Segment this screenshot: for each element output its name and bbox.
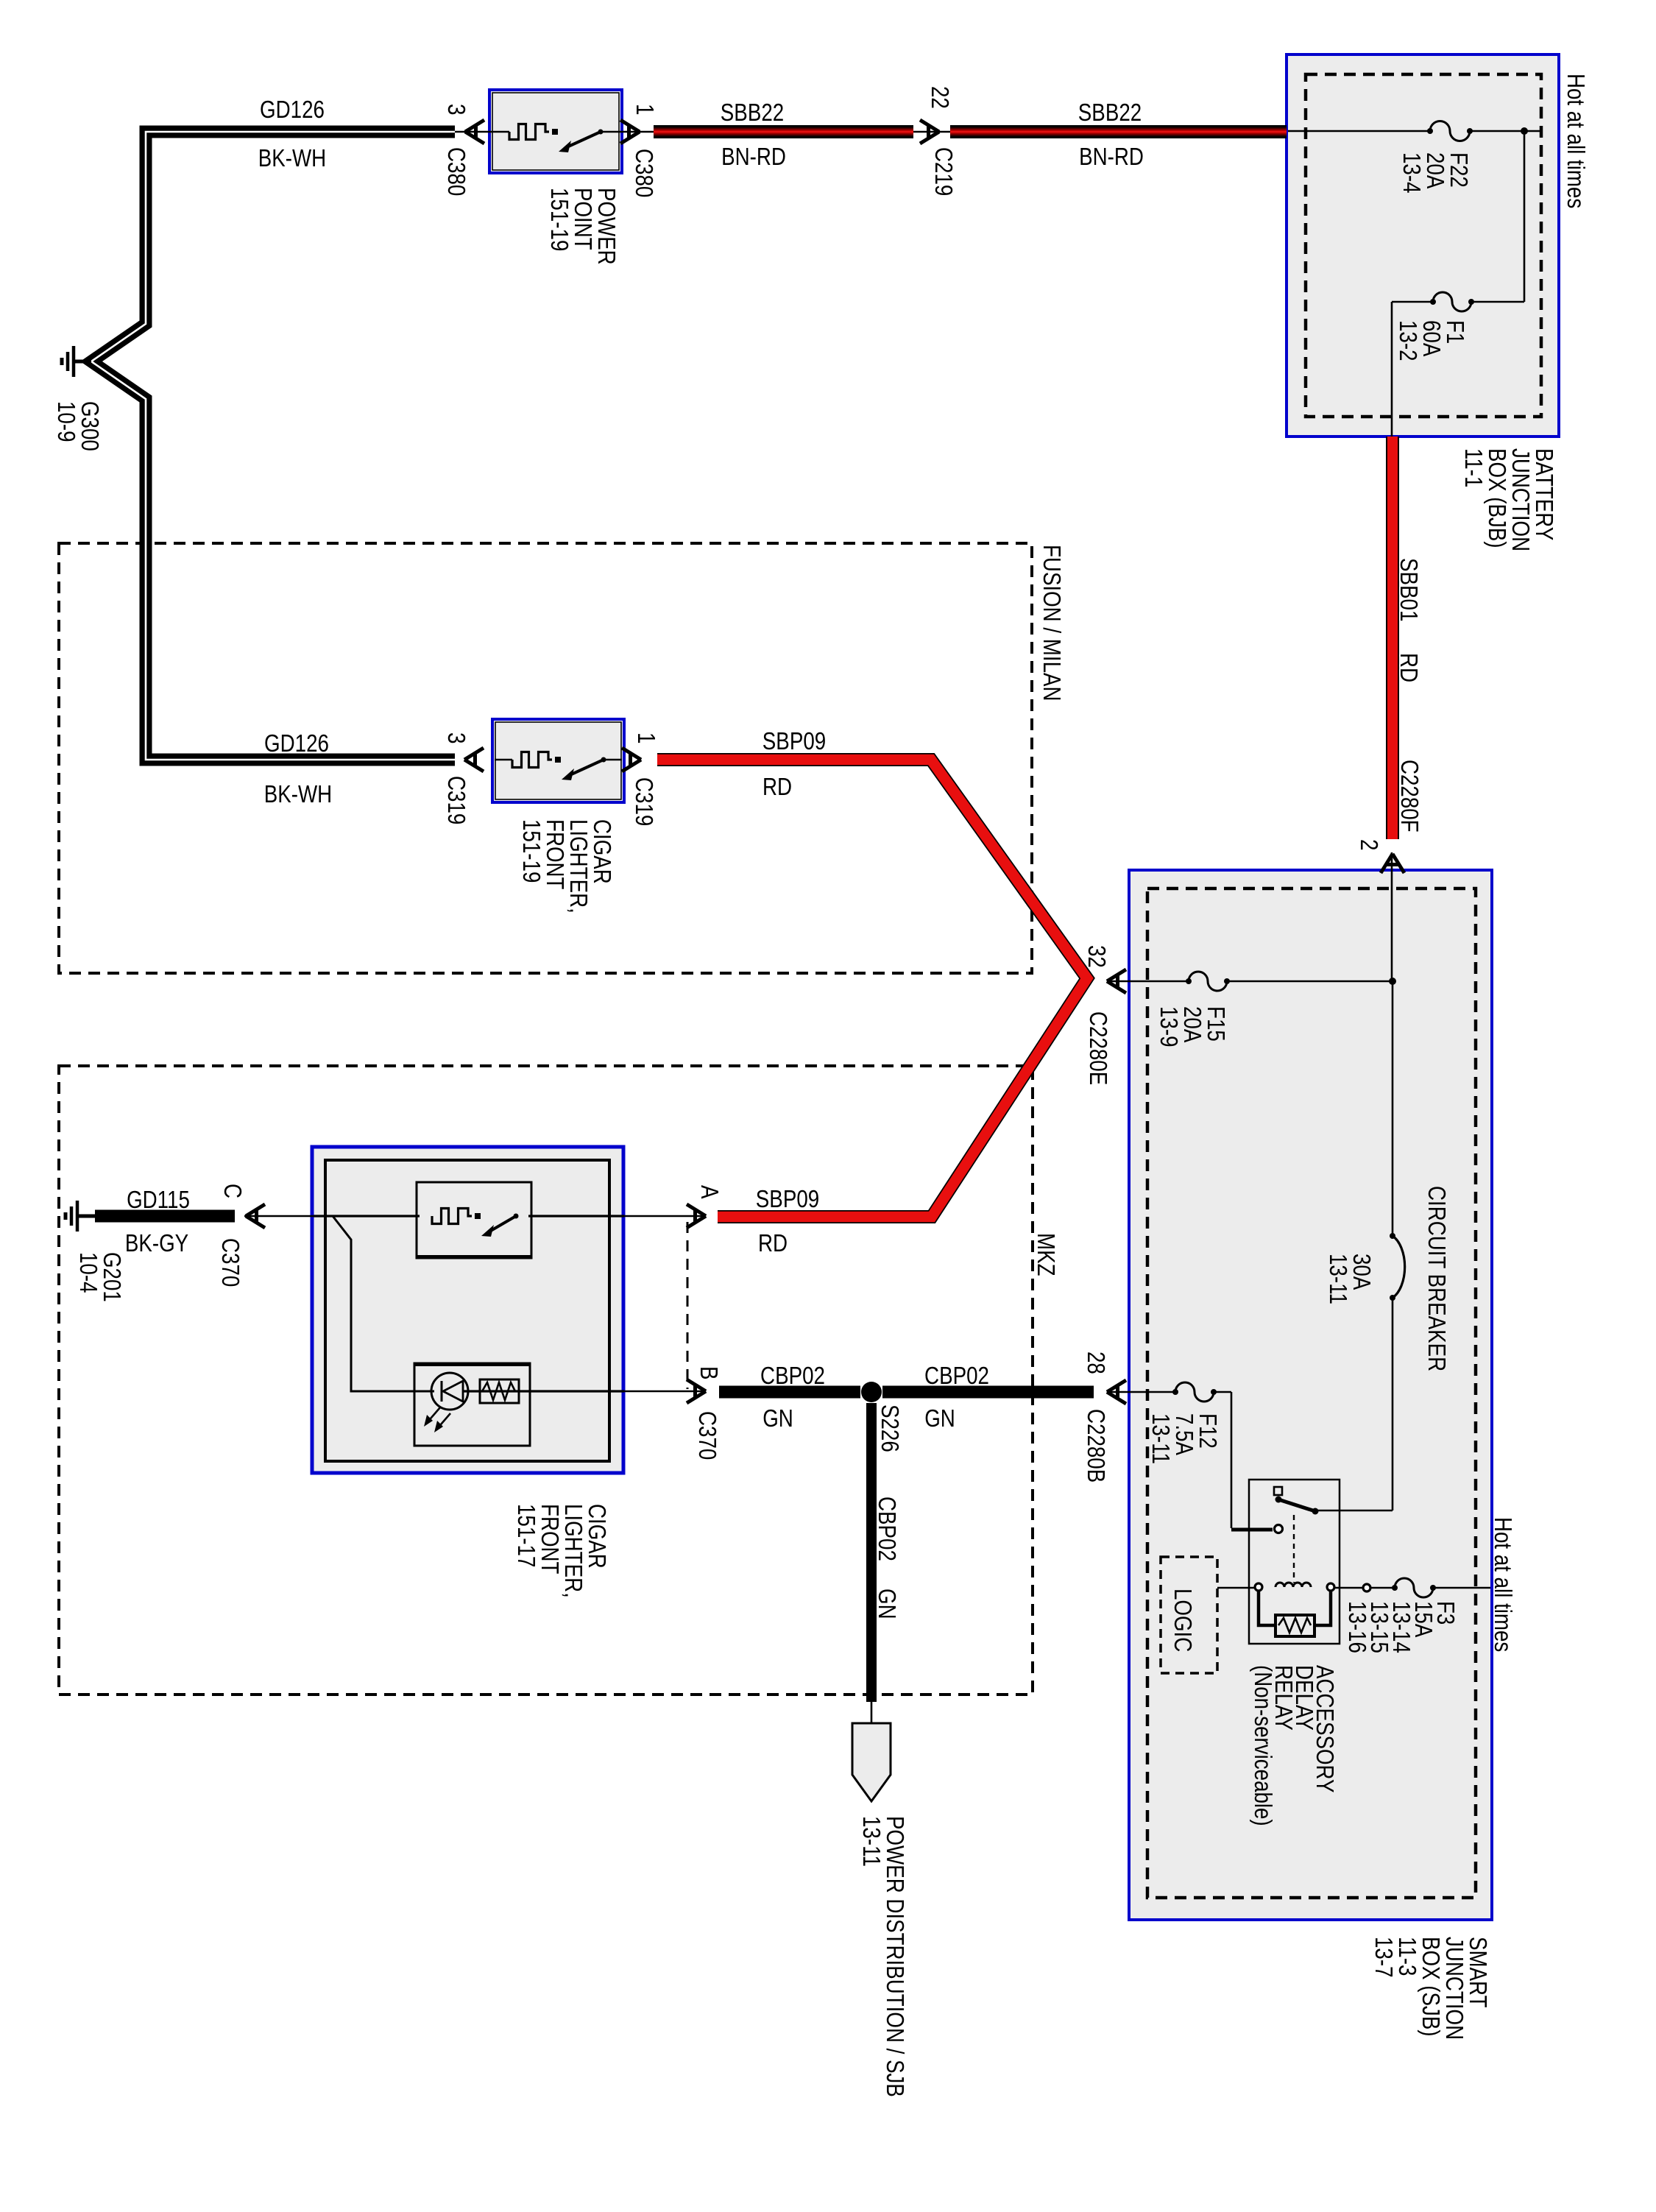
wire: C2280F lead into SJB	[1391, 852, 1393, 982]
relay thermal resistor	[1259, 1590, 1275, 1625]
wire: coil to F3	[1331, 1587, 1396, 1589]
smart junction box (SJB) outline	[1129, 870, 1492, 1920]
fuse F1 60A	[1433, 292, 1471, 311]
relay coil	[1255, 1583, 1262, 1591]
svg-text:MKZ: MKZ	[1033, 1233, 1060, 1276]
wire SBB22 BN-RD segment 2	[950, 125, 1287, 138]
fuse F3 15A	[1395, 1578, 1433, 1597]
LOGIC box dashed	[1161, 1557, 1217, 1673]
wire: C380 pin1 lead to SBB22	[620, 131, 655, 133]
connector C380 pin 3 arrow	[465, 120, 484, 144]
wire CBP02 GN segment 2 (S226 to C2280B)	[882, 1386, 1094, 1399]
svg-text:CBP02: CBP02	[760, 1362, 825, 1389]
wire: F12 corner down to relay contact	[1231, 1392, 1233, 1528]
cigar lighter front 151-19 box U2	[492, 719, 624, 802]
wire: relay contact feed (thick)	[1231, 1528, 1273, 1532]
wire: junction down to circuit breaker	[1392, 981, 1394, 1236]
svg-text:2: 2	[1356, 839, 1383, 851]
svg-text:C219: C219	[930, 147, 958, 196]
ground G300	[62, 346, 91, 377]
svg-text:C2280F: C2280F	[1396, 760, 1423, 833]
accessory delay relay box	[1249, 1480, 1340, 1644]
wire: cigar lighter U3 input	[314, 1215, 420, 1217]
wire: F3 to SJB border (Hot at all times)	[1432, 1587, 1490, 1589]
svg-text:32: 32	[1083, 945, 1111, 968]
wire SBB22 BN-RD segment 1	[654, 125, 913, 138]
circuit breaker 30A symbol	[1393, 1236, 1405, 1298]
SJB inner dashed border	[1147, 888, 1476, 1898]
splice S226	[861, 1382, 882, 1402]
wire: F1 row right segment	[1470, 301, 1524, 303]
node: coil-F3 node	[1363, 1584, 1370, 1591]
svg-text:Hot at all times: Hot at all times	[1490, 1517, 1517, 1652]
FUSION / MILAN dashed box	[59, 543, 1032, 973]
svg-text:C: C	[219, 1184, 247, 1198]
wire: C380 pin3 lead	[455, 131, 492, 133]
svg-text:C380: C380	[443, 147, 470, 196]
off-page pointer: power distribution	[852, 1723, 891, 1801]
svg-text:RD: RD	[762, 773, 792, 800]
wire: U3 switch output to pin A	[528, 1215, 624, 1217]
connector C370 pin A arrow	[687, 1204, 706, 1228]
svg-text:CBP02: CBP02	[874, 1497, 901, 1561]
accessory delay relay switch	[1274, 1487, 1282, 1495]
wire: F15 to junction	[1227, 980, 1393, 983]
connector C380 pin 1 arrow	[620, 120, 640, 144]
svg-text:28: 28	[1083, 1351, 1110, 1374]
svg-text:BK-WH: BK-WH	[264, 780, 332, 808]
fuse F15 20A	[1189, 972, 1227, 991]
svg-text:SBP09: SBP09	[756, 1185, 819, 1212]
connector C2280B pin 28 arrow	[1107, 1380, 1126, 1404]
svg-text:CBP02: CBP02	[924, 1362, 989, 1389]
wire: BJB feed to fuse F22	[1288, 130, 1432, 132]
relay NO contact terminal	[1275, 1525, 1283, 1533]
svg-text:1: 1	[633, 732, 660, 744]
svg-text:GD115: GD115	[127, 1186, 190, 1213]
battery junction box (BJB) outline	[1287, 54, 1559, 437]
svg-text:C370: C370	[217, 1238, 244, 1287]
svg-text:GN: GN	[924, 1404, 955, 1432]
U3 LED symbol	[431, 1373, 468, 1410]
svg-text:GN: GN	[874, 1589, 901, 1619]
svg-text:B: B	[696, 1366, 723, 1380]
wire: C2280B lead to fuse F12	[1108, 1391, 1177, 1393]
wire: C2280E lead to fuse F15	[1108, 980, 1190, 983]
connector C219 arrow	[920, 120, 939, 144]
U3 LED sub-box	[414, 1363, 530, 1446]
wire: F1 row left segment	[1392, 301, 1434, 303]
wire CBP02 GN segment 1 (C370 B to S226)	[719, 1386, 860, 1399]
svg-text:22: 22	[927, 86, 954, 109]
node: BJB junction	[1521, 127, 1528, 135]
svg-text:F1520A13-9: F1520A13-9	[1156, 1006, 1230, 1047]
MKZ dashed box	[59, 1066, 1033, 1695]
wire CBP02 GN vertical to power distribution	[866, 1403, 877, 1702]
svg-text:SBB22: SBB22	[1078, 99, 1142, 126]
U3 ballast resistor	[480, 1379, 519, 1403]
svg-text:BK-GY: BK-GY	[125, 1229, 188, 1257]
cigar lighter U3 element sub-box	[417, 1182, 531, 1258]
power point U1 resistor+switch symbol	[492, 131, 509, 133]
svg-text:S226: S226	[877, 1404, 904, 1452]
svg-text:BK-WH: BK-WH	[258, 144, 326, 172]
node: SJB junction at F15 row	[1389, 978, 1396, 985]
connector C319 pin 1 arrow	[622, 748, 641, 771]
svg-text:CIRCUIT BREAKER: CIRCUIT BREAKER	[1423, 1186, 1451, 1371]
svg-text:C319: C319	[631, 777, 658, 826]
svg-text:BN-RD: BN-RD	[721, 143, 786, 170]
svg-text:SBP09: SBP09	[762, 727, 826, 755]
wire: LOGIC to relay coil	[1217, 1587, 1259, 1589]
svg-text:GD126: GD126	[264, 729, 329, 757]
wire: relay common lead	[1316, 1510, 1393, 1512]
wire GD126 BK-WH (power point to G300)	[91, 132, 455, 760]
wire: F22 to junction	[1468, 130, 1541, 132]
svg-text:SBB22: SBB22	[721, 99, 784, 126]
connector C319 pin 3 arrow	[464, 748, 484, 771]
svg-text:C380: C380	[631, 149, 658, 197]
svg-text:LOGIC: LOGIC	[1170, 1589, 1197, 1652]
power point box U1	[489, 90, 622, 173]
svg-text:FUSION / MILAN: FUSION / MILAN	[1038, 545, 1066, 702]
wire: junction down to F1 row	[1524, 131, 1526, 302]
svg-text:C319: C319	[443, 776, 470, 824]
svg-text:GN: GN	[762, 1404, 793, 1432]
connector C370 pin B arrow	[687, 1379, 706, 1403]
BJB inner dashed border	[1306, 74, 1541, 417]
connector C370 pin C arrow	[246, 1204, 265, 1228]
svg-text:SBB01: SBB01	[1395, 558, 1423, 621]
svg-text:RD: RD	[1395, 653, 1423, 682]
svg-text:1: 1	[631, 104, 659, 116]
wire: U3 LED row through resistor to pin B	[464, 1390, 624, 1392]
svg-text:BN-RD: BN-RD	[1079, 143, 1144, 170]
wire: pentagon lead	[871, 1700, 873, 1723]
connector C2280E pin 32 arrow	[1107, 969, 1126, 993]
relay actuator dashed link	[1293, 1515, 1295, 1583]
svg-text:C2280E: C2280E	[1085, 1011, 1112, 1085]
wire SBP09 RD	[657, 760, 1087, 1217]
svg-text:C2280B: C2280B	[1083, 1409, 1110, 1483]
wire SBB01 RD	[1386, 437, 1399, 839]
ground G201	[66, 1201, 95, 1232]
wire: F12 to corner	[1212, 1391, 1231, 1393]
svg-text:RD: RD	[758, 1229, 788, 1257]
U3 resistor+switch symbol	[432, 1209, 472, 1224]
svg-text:3: 3	[443, 104, 470, 116]
C370 connector bracket dashed line	[687, 1222, 689, 1389]
wire: circuit breaker to relay common	[1392, 1298, 1394, 1510]
wire GD115 BK-GY	[95, 1210, 235, 1223]
svg-text:F2220A13-4: F2220A13-4	[1398, 152, 1473, 194]
wire: F1 down to BJB edge	[1391, 302, 1393, 439]
connector C2280F pin 2 arrow	[1381, 854, 1404, 873]
cigar lighter U2 resistor+switch symbol	[495, 759, 512, 761]
svg-text:A: A	[696, 1185, 723, 1199]
svg-text:3: 3	[443, 732, 470, 744]
fuse F22 20A	[1430, 121, 1470, 141]
svg-text:C370: C370	[694, 1411, 721, 1460]
wire: C219 in-line connector lead	[913, 131, 951, 133]
wire: C370 pin C lead	[244, 1215, 314, 1218]
svg-text:GD126: GD126	[260, 96, 325, 123]
cigar lighter front 151-17 box U3	[312, 1147, 623, 1473]
svg-text:Hot at all times: Hot at all times	[1563, 74, 1590, 208]
fuse F12 7.5A	[1175, 1382, 1214, 1402]
wire: U3 LED branch diagonal	[333, 1216, 434, 1391]
